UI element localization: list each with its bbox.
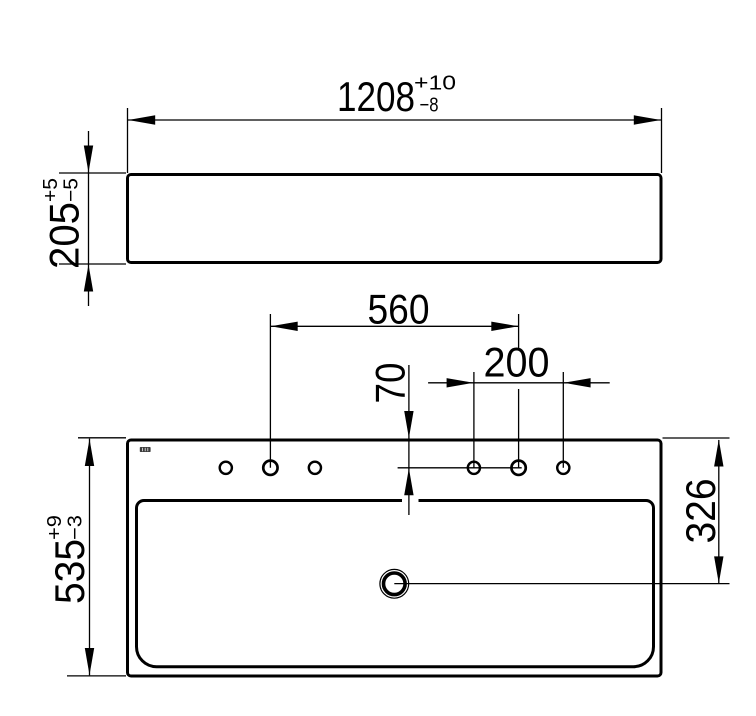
dimension 205 extension line bottom [59, 263, 126, 265]
tap hole small right inner [468, 462, 480, 474]
dimension 560 arrow right [491, 322, 518, 331]
dimension 560 line [270, 325, 518, 327]
dimension 560 text [368, 286, 430, 333]
svg-text:+10: +10 [414, 72, 456, 95]
svg-text:−8: −8 [420, 94, 439, 117]
dimension 205 line [88, 131, 90, 306]
drain outer circle [380, 569, 409, 598]
svg-text:70: 70 [367, 363, 414, 404]
dimension 205 arrow top [84, 146, 93, 173]
dimension 326 arrow top [714, 440, 723, 467]
dimension 205 text [39, 178, 88, 269]
tap hole center right [511, 461, 525, 475]
drain inner circle [384, 573, 406, 595]
dimension 326 line [718, 440, 720, 583]
dimension 535 arrow bottom [85, 648, 94, 675]
dimension 326 arrow bottom [714, 556, 723, 583]
drain centerline [394, 583, 729, 585]
dimension 1208 arrow right [634, 115, 661, 124]
gap in bowl edge at 70-dimension line [402, 498, 419, 504]
dimension 200 line with tails [428, 382, 610, 384]
dimension 535 extension line top [78, 437, 126, 439]
dimension 535 extension line bottom [67, 675, 126, 677]
dimension 535 arrow top [85, 439, 94, 466]
dimension 205 extension line top [59, 172, 126, 174]
dimension 326 extension line top [663, 437, 730, 439]
dimension 70 text [367, 363, 414, 404]
dimension 70 arrow top (outside pointing down) [404, 411, 413, 438]
tap hole small left inner [309, 462, 321, 474]
dimension 560 arrow left [271, 322, 298, 331]
hole centerline through right tap holes [398, 467, 522, 469]
tap hole small right outer [557, 462, 569, 474]
dimension 200 arrow right (outside pointing left) [564, 378, 591, 387]
dimension 200 extension line left [473, 372, 475, 468]
svg-text:535: 535 [46, 539, 93, 604]
dimension 70 arrow bottom (outside pointing up) [404, 468, 413, 495]
tap hole center left [263, 461, 277, 475]
plan view inner bowl outline [137, 501, 654, 667]
dimension 326 text [677, 479, 724, 544]
dimension 560 extension line left (to hole center) [269, 314, 271, 468]
dimension 535 line [89, 439, 91, 676]
dimension 1208 extension line left [127, 108, 129, 173]
dimension 1208 line [128, 119, 661, 121]
plan view outer outline [128, 440, 662, 676]
dimension 535 text [43, 515, 93, 604]
dimension 205 arrow bottom [84, 265, 93, 292]
dimension 200 text (white background masks extension line) [484, 339, 550, 386]
svg-text:205: 205 [41, 202, 88, 269]
dimension 70 line [408, 365, 410, 515]
dimension 1208 arrow left [128, 115, 155, 124]
dimension 1208 extension line right [661, 108, 663, 173]
tap hole small left outer [220, 462, 232, 474]
svg-text:−5: −5 [60, 178, 83, 202]
dimension 200 arrow left (outside pointing right) [447, 378, 474, 387]
KEUCO logo [140, 447, 151, 452]
dimension 200 extension line right [562, 372, 564, 468]
dimension 1208 text [337, 72, 456, 121]
svg-text:200: 200 [484, 339, 550, 386]
front view basin outline [128, 175, 662, 263]
svg-text:1208: 1208 [337, 73, 415, 120]
svg-text:−3: −3 [64, 515, 87, 540]
dimension 560 extension line right (to hole center) [518, 314, 520, 468]
svg-text:560: 560 [368, 286, 430, 333]
svg-text:326: 326 [677, 479, 724, 544]
